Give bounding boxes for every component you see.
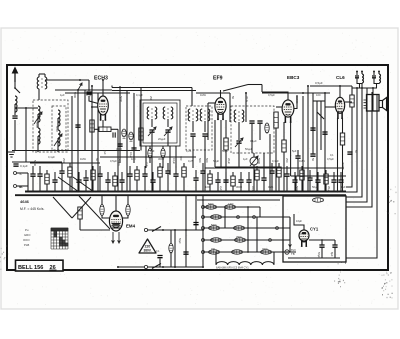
power supply box <box>283 196 346 262</box>
resistor decoupling <box>231 176 235 186</box>
wire <box>225 182 227 191</box>
wire <box>278 177 280 192</box>
wire <box>259 207 261 217</box>
junction <box>340 191 342 193</box>
resistor <box>265 123 269 133</box>
capacitor decoupling <box>30 174 35 176</box>
wire <box>334 247 336 258</box>
wire <box>289 217 291 252</box>
cathode lead EM4 <box>112 232 115 243</box>
wire <box>301 180 303 192</box>
wire AVC rail <box>12 150 140 152</box>
wire <box>312 150 314 154</box>
wire <box>145 146 147 168</box>
junction <box>152 191 154 193</box>
trimmer arrow <box>78 83 82 90</box>
capacitor <box>322 132 327 134</box>
wire <box>152 182 154 191</box>
capacitor <box>310 154 315 156</box>
pilot lamp TB <box>285 250 289 254</box>
svg-text:20µF: 20µF <box>245 96 249 103</box>
junction <box>144 191 146 193</box>
junction <box>151 190 153 192</box>
svg-text:50µF: 50µF <box>317 252 321 258</box>
svg-text:1MΩ: 1MΩ <box>80 157 86 161</box>
tube V2 EF9 IF pentode <box>215 98 226 121</box>
junction <box>162 266 164 268</box>
junction <box>294 191 296 193</box>
wire <box>167 163 169 171</box>
wire <box>133 93 135 163</box>
svg-text:100: 100 <box>205 185 210 189</box>
svg-text:380V.: 380V. <box>143 249 151 253</box>
coil L5 <box>58 130 60 146</box>
tube V3 EBC3 duodiode-triode <box>282 100 294 123</box>
junction <box>102 79 104 81</box>
junction <box>61 191 63 193</box>
wire <box>271 163 273 171</box>
capacitor <box>75 125 80 127</box>
pilot lamp filament <box>286 251 288 253</box>
wire <box>229 93 231 122</box>
wire <box>117 129 119 191</box>
svg-text:EM4: EM4 <box>126 224 136 229</box>
wire <box>107 172 109 180</box>
junction <box>225 191 227 193</box>
svg-text:50µF: 50µF <box>178 238 181 244</box>
trimmer arrow L2 <box>34 112 42 124</box>
antenna <box>12 68 17 83</box>
wire <box>102 120 104 127</box>
wire dial cord <box>53 197 72 218</box>
svg-text:50: 50 <box>95 158 99 161</box>
svg-text:50µF: 50µF <box>312 185 319 189</box>
wire <box>262 92 330 94</box>
wire <box>220 120 222 167</box>
junction <box>91 190 93 192</box>
wire <box>39 176 41 191</box>
wire <box>71 96 73 192</box>
wire <box>217 172 219 180</box>
svg-text:25000: 25000 <box>341 162 345 170</box>
capacitor decoupling <box>307 178 312 180</box>
svg-text:BELL 156: BELL 156 <box>18 265 43 271</box>
capacitor mains filter <box>183 252 188 254</box>
terminal <box>117 266 119 268</box>
junction <box>25 107 27 109</box>
wire <box>191 88 193 107</box>
wire <box>45 79 89 81</box>
wire <box>151 146 153 192</box>
wire <box>259 124 261 140</box>
capacitor decoupling <box>165 171 170 173</box>
wire <box>57 138 59 152</box>
wire <box>247 207 249 252</box>
capacitor <box>236 141 241 143</box>
junction <box>286 191 288 193</box>
junction <box>174 229 176 231</box>
wire stub <box>378 72 380 75</box>
wire <box>148 229 203 231</box>
svg-text:OOO: OOO <box>23 238 30 242</box>
wire <box>54 172 56 180</box>
resistor dropper <box>209 226 220 230</box>
wire <box>263 170 265 178</box>
svg-text:150: 150 <box>211 248 216 251</box>
capacitor decoupling <box>150 180 155 182</box>
svg-text:20µF: 20µF <box>327 186 331 193</box>
resistor <box>139 128 143 140</box>
capacitor decoupling <box>223 180 228 182</box>
junction <box>301 191 303 193</box>
svg-text:2µF: 2µF <box>103 150 107 155</box>
wire <box>225 150 227 192</box>
terminal dot <box>373 71 375 73</box>
svg-text:PLB: PLB <box>24 243 29 247</box>
wire <box>288 257 340 259</box>
junction <box>85 191 87 193</box>
junction <box>325 191 327 193</box>
terminal <box>237 216 240 219</box>
junction <box>339 85 341 87</box>
capacitor decoupling <box>338 180 343 182</box>
coil IF1 primary <box>147 107 157 119</box>
wire <box>170 253 172 268</box>
wire stub <box>361 72 363 75</box>
resistor bleeder <box>169 244 173 253</box>
wire <box>215 252 217 264</box>
capacitor mains filter <box>157 256 162 258</box>
wire <box>167 119 169 127</box>
wire <box>309 239 335 241</box>
resistor decoupling <box>91 170 95 180</box>
wire <box>204 121 206 132</box>
mains voltage warning triangle <box>139 239 156 253</box>
wire <box>152 172 154 180</box>
terminal tap <box>202 206 205 209</box>
capacitor decoupling <box>105 180 110 182</box>
junction <box>79 79 81 81</box>
capacitor decoupling <box>97 174 102 176</box>
junction <box>247 251 249 253</box>
cathode arrow <box>289 240 292 247</box>
wire <box>297 158 299 176</box>
junction <box>71 190 73 192</box>
svg-text:0,1µF: 0,1µF <box>136 93 143 97</box>
svg-text:CY1: CY1 <box>310 227 319 232</box>
capacitor decoupling <box>76 180 81 182</box>
svg-text:500: 500 <box>295 186 299 191</box>
wire <box>325 106 335 108</box>
resistor <box>161 149 165 158</box>
wire <box>217 182 219 191</box>
wire <box>278 163 280 167</box>
wire <box>324 93 326 192</box>
wire <box>99 176 101 191</box>
shield box IF coupling <box>186 106 212 150</box>
resistor decoupling <box>68 167 72 177</box>
wire <box>111 86 113 88</box>
wire <box>12 161 62 163</box>
junction <box>91 85 93 87</box>
svg-text:5µF: 5µF <box>292 149 297 153</box>
terminal <box>269 239 272 242</box>
wire <box>57 118 59 130</box>
capacitor grid coupling <box>86 92 91 94</box>
wire <box>352 87 377 89</box>
wire <box>136 166 138 170</box>
wire <box>27 173 29 192</box>
terminal <box>253 216 256 219</box>
coil heater chain <box>216 262 274 265</box>
wire <box>92 180 94 192</box>
resistor decoupling <box>277 167 281 177</box>
svg-text:0,25: 0,25 <box>186 149 192 153</box>
wire grid top <box>262 92 288 100</box>
svg-text:0000: 0000 <box>262 248 268 251</box>
wire <box>196 92 230 94</box>
svg-text:0,1µF: 0,1µF <box>86 93 93 97</box>
svg-text:500: 500 <box>205 158 209 163</box>
wire <box>276 106 282 108</box>
transformer IF1 inner <box>143 103 177 143</box>
resistor screen EF9 <box>224 138 228 150</box>
junction <box>256 191 258 193</box>
svg-text:2µF: 2µF <box>145 162 149 167</box>
wire stub <box>373 72 375 76</box>
wire <box>320 101 322 150</box>
wire <box>175 146 177 168</box>
capacitor decoupling <box>261 178 266 180</box>
wire dial cord <box>72 197 91 218</box>
dial switch table <box>51 228 68 249</box>
junction <box>248 191 250 193</box>
wire <box>313 100 325 102</box>
wire <box>195 170 197 178</box>
wire <box>101 195 103 204</box>
resistor decoupling <box>255 170 259 180</box>
junction <box>136 191 138 193</box>
svg-text:3000: 3000 <box>158 157 164 161</box>
svg-text:250: 250 <box>149 96 153 101</box>
junction <box>333 191 335 193</box>
wire from T <box>17 172 29 174</box>
capacitor decoupling <box>238 180 243 182</box>
wire PSU feed <box>346 88 357 192</box>
wire <box>140 88 142 151</box>
resistor dropper <box>235 238 246 242</box>
wire <box>61 173 63 191</box>
svg-text:0,5µF: 0,5µF <box>327 157 334 161</box>
svg-text:250: 250 <box>285 158 289 163</box>
wire <box>112 90 196 92</box>
junction <box>185 229 187 231</box>
wire <box>248 172 250 180</box>
wire <box>283 122 285 140</box>
svg-text:0,1: 0,1 <box>156 250 160 253</box>
wire grid side <box>208 102 215 104</box>
junction <box>283 190 285 192</box>
wire <box>149 146 151 149</box>
wire <box>37 136 39 152</box>
wire diode loop <box>294 95 297 109</box>
wire HT top <box>310 85 352 87</box>
wire <box>174 230 176 267</box>
wire <box>151 119 153 127</box>
capacitor IF2 trim <box>257 121 262 123</box>
wire PSU feed <box>346 84 362 197</box>
junction <box>245 92 247 94</box>
wire <box>183 163 185 167</box>
wire <box>253 153 255 157</box>
wire <box>159 163 161 167</box>
junction <box>14 87 16 89</box>
shield box band coils <box>33 100 68 152</box>
wire <box>107 182 109 191</box>
capacitor trim <box>202 134 207 136</box>
wire <box>84 90 86 151</box>
junction <box>225 190 227 192</box>
wire <box>271 173 273 191</box>
junction <box>247 206 249 208</box>
svg-text:1µF: 1µF <box>60 93 65 97</box>
wire <box>312 93 314 150</box>
junction <box>39 191 41 193</box>
svg-text:1µF: 1µF <box>341 185 346 189</box>
tube V4 CL6 output pentode <box>335 97 344 119</box>
wire PSU feed <box>346 107 352 187</box>
resistor decoupling <box>182 167 186 177</box>
wire <box>253 165 255 192</box>
wire <box>340 172 342 180</box>
junction <box>336 190 338 192</box>
wire <box>374 78 379 84</box>
resistor decoupling <box>45 174 49 184</box>
svg-text:50µµF: 50µµF <box>245 147 253 151</box>
junction <box>232 191 234 193</box>
wire <box>202 173 204 191</box>
trimmer arrow <box>235 138 243 147</box>
svg-text:0,1µF: 0,1µF <box>48 155 55 159</box>
wire <box>275 128 277 192</box>
resistor cathode CL6 <box>340 133 344 145</box>
svg-text:100: 100 <box>316 93 321 97</box>
terminal <box>276 227 279 230</box>
resistor EM4 grid <box>78 207 82 219</box>
capacitor decoupling <box>215 180 220 182</box>
wire <box>202 163 204 171</box>
junction <box>117 190 119 192</box>
capacitor <box>193 223 198 225</box>
junction <box>167 191 169 193</box>
wire heater ladder <box>203 239 290 241</box>
wire <box>309 170 311 178</box>
svg-text:ECH3: ECH3 <box>94 76 108 82</box>
svg-text:50µF: 50µF <box>213 159 220 163</box>
wire <box>316 101 318 192</box>
wire <box>342 145 344 192</box>
resistor <box>148 149 152 158</box>
svg-text:0,25: 0,25 <box>268 185 274 189</box>
speaker LS <box>379 98 387 111</box>
wire <box>321 247 323 258</box>
wire to grid cap <box>89 96 100 104</box>
junction <box>54 191 56 193</box>
wire screen <box>345 101 352 103</box>
wire <box>224 207 226 228</box>
capacitor IF1 trim <box>165 130 170 132</box>
terminal T <box>14 172 17 175</box>
wire <box>102 216 110 219</box>
svg-text:M.F. = 445 Kc/s.: M.F. = 445 Kc/s. <box>20 207 44 211</box>
capacitor <box>131 148 136 150</box>
wire <box>207 103 209 140</box>
capacitor <box>295 156 300 158</box>
wire anode <box>294 214 304 230</box>
wire <box>197 199 280 201</box>
wire <box>325 170 327 174</box>
wire dial cord <box>79 196 110 229</box>
wire <box>91 86 93 192</box>
capacitor decoupling <box>284 174 289 176</box>
resistor dropper <box>261 250 272 254</box>
wire <box>78 172 80 180</box>
svg-text:1µF: 1µF <box>243 157 248 161</box>
terminal tap <box>202 251 205 254</box>
wire <box>175 166 177 174</box>
resistor decoupling <box>135 170 139 180</box>
svg-text:20µµF: 20µµF <box>158 137 166 141</box>
terminal dot <box>361 71 363 73</box>
wire dial cord <box>73 177 94 192</box>
svg-text:250: 250 <box>62 158 66 163</box>
wire <box>333 172 335 180</box>
svg-text:2500: 2500 <box>236 236 242 239</box>
wire <box>14 120 16 151</box>
junction <box>324 92 326 94</box>
coil <box>188 109 198 121</box>
svg-text:1MΩ: 1MΩ <box>200 93 206 97</box>
svg-text:0,1µF: 0,1µF <box>272 159 279 163</box>
wire heater ladder <box>203 227 290 229</box>
wire <box>94 128 99 130</box>
resistor decoupling <box>300 170 304 180</box>
wire <box>144 176 146 191</box>
wire <box>321 240 323 245</box>
cathode arrow EM4 <box>118 232 121 243</box>
wire top cap <box>220 90 222 98</box>
coil mains choke <box>362 74 364 83</box>
wire heater ladder <box>203 216 290 218</box>
wire <box>204 137 206 192</box>
resistor EBC3 load <box>282 140 286 152</box>
svg-text:0,5µF: 0,5µF <box>268 93 275 97</box>
svg-text:CL6: CL6 <box>336 75 345 80</box>
junction <box>361 87 363 89</box>
wire <box>357 78 362 84</box>
wire <box>61 163 63 171</box>
trimmer arrow <box>148 127 156 136</box>
wire <box>232 186 234 192</box>
wire <box>46 184 48 192</box>
svg-text:0,1µF: 0,1µF <box>250 139 257 143</box>
wire anode top <box>102 80 104 96</box>
switch tone <box>317 112 324 119</box>
svg-text:20µF: 20µF <box>227 158 231 165</box>
junction <box>78 191 80 193</box>
resistor <box>129 132 133 141</box>
resistor screen CL6 <box>350 95 354 107</box>
